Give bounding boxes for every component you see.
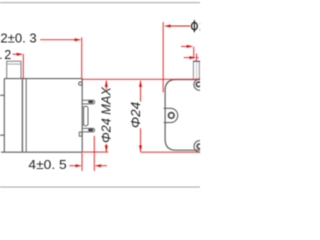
arrow shaft inner (189, 56, 196, 59)
side view left edge (3, 79, 5, 153)
phi24max dim line upper (105, 81, 107, 90)
side view small circle on right edge (79, 82, 82, 85)
extension line right of side body (81, 37, 83, 79)
frame border top (0, 2, 200, 3)
arrow 32±0.3 (75, 38, 82, 41)
svg-text:2: 2 (199, 19, 200, 33)
arrow phi24 down (139, 145, 142, 152)
front view top-right ear (194, 79, 205, 90)
svg-text:4±0. 5: 4±0. 5 (28, 158, 66, 172)
side view small square bump bottom right (79, 132, 82, 136)
side view body right edge (81, 79, 83, 153)
arrow phi leader (164, 24, 171, 27)
dim phi leader top (170, 25, 191, 27)
extension below tab end (93, 136, 95, 171)
side view lower terminal tab (82, 128, 95, 132)
arrow 1.2 (17, 53, 24, 56)
arrow line shaft inner (184, 57, 190, 59)
svg-text:Φ24: Φ24 (129, 102, 143, 128)
dim line 1.2 (13, 53, 18, 55)
extension at front body left (162, 22, 164, 92)
side view top edge (4, 78, 82, 80)
side view bottom edge (1, 151, 82, 153)
side view tube step upper tick (0, 94, 4, 96)
extension line at flange (22, 54, 24, 79)
front view body outline (165, 80, 210, 151)
side view middle bracket (ear edge-on) (82, 106, 88, 126)
svg-text:2: 2 (4, 48, 11, 62)
front view bottom-right ear (194, 141, 206, 153)
front view left ear (164, 108, 178, 122)
phi24 dim line upper (140, 81, 142, 102)
svg-text:.: . (0, 48, 3, 62)
extension at front body bottom (141, 151, 201, 153)
arrow line shaft left (181, 45, 187, 47)
dim line 32±0.3 (40, 39, 75, 41)
arrow phi24max down (105, 145, 108, 152)
svg-text:2±0. 3: 2±0. 3 (0, 31, 36, 45)
phi24max dim line lower (105, 144, 107, 152)
svg-text:Φ24 MAX: Φ24 MAX (99, 87, 113, 143)
dim 4±0.5 left segment (69, 165, 76, 167)
side view upper terminal tab (82, 100, 95, 104)
dim 4±0.5 right segment (100, 165, 107, 167)
label phi top right (192, 20, 198, 32)
arrow phi24 up (139, 80, 142, 87)
extension shaft left (193, 47, 195, 59)
extension below body right edge (81, 153, 83, 171)
side view flange line 1 (21, 79, 23, 153)
front view shaft (193, 61, 200, 79)
long horizontal extension at body top (82, 78, 200, 80)
phi24 dim line lower (140, 128, 142, 151)
extension at head bottom (83, 151, 108, 153)
red arrowheads (17, 24, 196, 167)
arrow shaft left (187, 45, 194, 48)
extension shaft inner (195, 54, 197, 61)
arrow 4±0.5 right (94, 164, 101, 167)
side view shaft (7, 61, 21, 78)
arrow 4±0.5 left (75, 164, 82, 167)
overshoot after arrow (196, 57, 199, 59)
side view tube step lower tick (0, 134, 4, 136)
arrow phi24max up (105, 80, 108, 87)
side view flange line 2 (25, 79, 27, 153)
frame border bottom (0, 187, 200, 188)
